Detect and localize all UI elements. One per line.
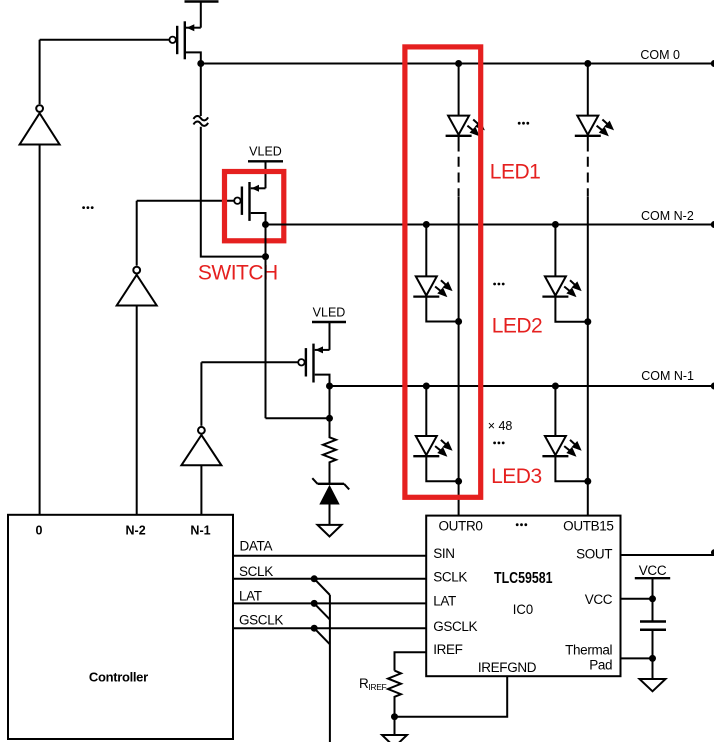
node junction dot (391, 713, 398, 720)
red box around LED column (405, 47, 481, 497)
node junction dot (326, 415, 333, 422)
svg-text:N-2: N-2 (126, 523, 146, 537)
node dot Thermal Pad (649, 655, 656, 662)
svg-text:COM N-2: COM N-2 (641, 209, 694, 223)
node dot on GSCLK (311, 625, 318, 632)
node (ellipsis, row 1) (518, 122, 529, 125)
LED D-LED1b (row 1 right) (575, 64, 612, 152)
wire COM N-1 (330, 385, 714, 387)
ground (640, 679, 666, 691)
svg-text:IC0: IC0 (513, 601, 534, 617)
node Q3 source / COM N-1 dot (326, 383, 333, 390)
svg-text:GSCLK: GSCLK (239, 613, 283, 628)
wire U1 output to Q1 gate (40, 39, 170, 41)
svg-text:VCC: VCC (585, 592, 613, 607)
node Q2 source / COM N-2 dot (262, 221, 269, 228)
wire tap from LAT (314, 603, 330, 619)
wire right column down (587, 322, 589, 482)
wire tap from SCLK (314, 579, 330, 595)
diode D1 (zener) (312, 478, 349, 525)
wire U3 output to Q3 gate (201, 361, 298, 363)
VCC supply bar (635, 577, 670, 579)
wire to OUTR0 (458, 481, 460, 515)
node junction dot (584, 318, 591, 325)
svg-text:LED1: LED1 (490, 160, 541, 183)
wire VCC pin (621, 598, 653, 600)
capacitor C1 (640, 622, 666, 630)
VLED supply bar (312, 321, 346, 323)
svg-text:IREF: IREF (433, 642, 462, 657)
resistor RIREF (388, 671, 401, 717)
node dot at right edge (711, 549, 714, 556)
node dot on LAT (311, 600, 318, 607)
svg-text:GSCLK: GSCLK (433, 619, 477, 634)
VLED supply bar (248, 160, 283, 162)
wire from COM0 node down (200, 64, 202, 117)
wire daisy-chain bus down (329, 595, 331, 742)
node (ellipsis dots, more channels) (82, 206, 93, 209)
wire COM 0 (201, 63, 714, 65)
wire down (329, 386, 331, 418)
svg-text:N-1: N-1 (190, 523, 210, 537)
svg-text:× 48: × 48 (488, 419, 513, 433)
transistor Q3 (PMOS) (298, 344, 329, 386)
wire (587, 197, 589, 322)
node dot on SCLK (311, 575, 318, 582)
svg-text:OUTR0: OUTR0 (439, 518, 483, 533)
svg-text:Controller: Controller (89, 669, 148, 684)
wire LAT (233, 602, 426, 604)
LED D-LED3a (row 3 left) (413, 386, 458, 481)
wire Thermal Pad (621, 657, 653, 659)
wire down from COM N-2 node (265, 225, 267, 419)
svg-text:DATA: DATA (240, 538, 273, 553)
wire to R1 column (266, 417, 330, 419)
wire DATA (233, 555, 426, 557)
wire (200, 2, 202, 28)
wire (dashed) (587, 157, 589, 197)
red box around SWITCH (225, 172, 284, 241)
inverter U1 (left buffer) (20, 40, 60, 515)
wire to OUTB15 (587, 481, 589, 515)
node dot COM0 / LED1 left (455, 60, 462, 67)
node dot VCC (649, 595, 656, 602)
LED D-LED3b (row 3 right) (542, 386, 587, 481)
ground (318, 525, 342, 537)
node junction dot (262, 253, 269, 260)
svg-text:LED2: LED2 (492, 314, 543, 337)
LED D-LED1a (row 1 left) (446, 64, 483, 152)
node dot at right edge (711, 221, 714, 228)
node (ellipsis, IC outputs) (516, 523, 527, 526)
node dot COM N-2 / LED2 right (552, 221, 559, 228)
svg-text:RIREF: RIREF (359, 676, 387, 692)
LED D-LED2a (row 2 left) (413, 225, 458, 322)
node junction dot (455, 478, 462, 485)
transistor Q1 (top PMOS) (169, 21, 200, 63)
svg-text:COM 0: COM 0 (640, 48, 680, 62)
node junction dot (584, 478, 591, 485)
svg-text:SCLK: SCLK (433, 570, 467, 585)
wire (dashed, column continues) (458, 157, 460, 197)
wire (652, 578, 654, 621)
wire SCLK (233, 578, 426, 580)
wire down (394, 717, 396, 735)
inverter U3 (181, 362, 221, 515)
svg-text:IREFGND: IREFGND (478, 660, 537, 675)
wire to IREFGND (395, 676, 508, 717)
wire LED1 column down to row3 node (458, 322, 460, 482)
node COM0 junction dot (197, 60, 204, 67)
node (ellipsis, row 3) (493, 442, 504, 445)
svg-text:Thermal: Thermal (565, 642, 612, 657)
wire SOUT (621, 554, 714, 556)
svg-text:VLED: VLED (249, 144, 282, 158)
wire U2 output to Q2 gate (137, 200, 235, 202)
wire GSCLK (233, 627, 426, 629)
wire (201, 127, 266, 257)
node junction dot (455, 318, 462, 325)
VLED supply bar (top, cut off) (185, 0, 219, 3)
svg-text:VLED: VLED (313, 305, 346, 319)
node dot COM0 / LED1 right (584, 60, 591, 67)
svg-text:SOUT: SOUT (576, 546, 612, 561)
svg-text:TLC59581: TLC59581 (494, 570, 553, 587)
resistor R1 (323, 418, 336, 483)
break symbol (line interruption) (194, 116, 209, 120)
node dot at right edge (711, 60, 714, 67)
svg-text:COM N-1: COM N-1 (641, 369, 694, 383)
inverter U2 (117, 201, 157, 515)
svg-text:SCLK: SCLK (239, 564, 273, 579)
wire tap from GSCLK (314, 628, 330, 644)
node dot at right edge (711, 383, 714, 390)
node dot COM N-2 / LED2 left (423, 221, 430, 228)
node (ellipsis, row 2) (493, 283, 504, 286)
svg-text:OUTB15: OUTB15 (563, 518, 613, 533)
transistor Q2 (SWITCH PMOS) (234, 182, 265, 225)
svg-text:LAT: LAT (239, 589, 262, 604)
node dot COM N-1 / LED3 left (423, 383, 430, 390)
svg-text:LED3: LED3 (491, 465, 542, 488)
wire IREF (395, 652, 427, 670)
IC U-IC0 TLC59581 box (426, 516, 620, 677)
svg-text:VCC: VCC (639, 563, 667, 578)
LED D-LED2b (row 2 right) (542, 225, 587, 322)
Controller box (8, 515, 233, 739)
wire (329, 322, 331, 350)
wire (652, 630, 654, 679)
wire COM N-2 (266, 224, 714, 226)
svg-text:LAT: LAT (433, 593, 456, 608)
svg-text:SIN: SIN (433, 546, 454, 561)
ground (382, 735, 407, 742)
wire (265, 161, 267, 188)
svg-text:Pad: Pad (589, 658, 612, 673)
wire (458, 197, 460, 322)
svg-text:0: 0 (36, 523, 43, 537)
node dot COM N-1 / LED3 right (552, 383, 559, 390)
